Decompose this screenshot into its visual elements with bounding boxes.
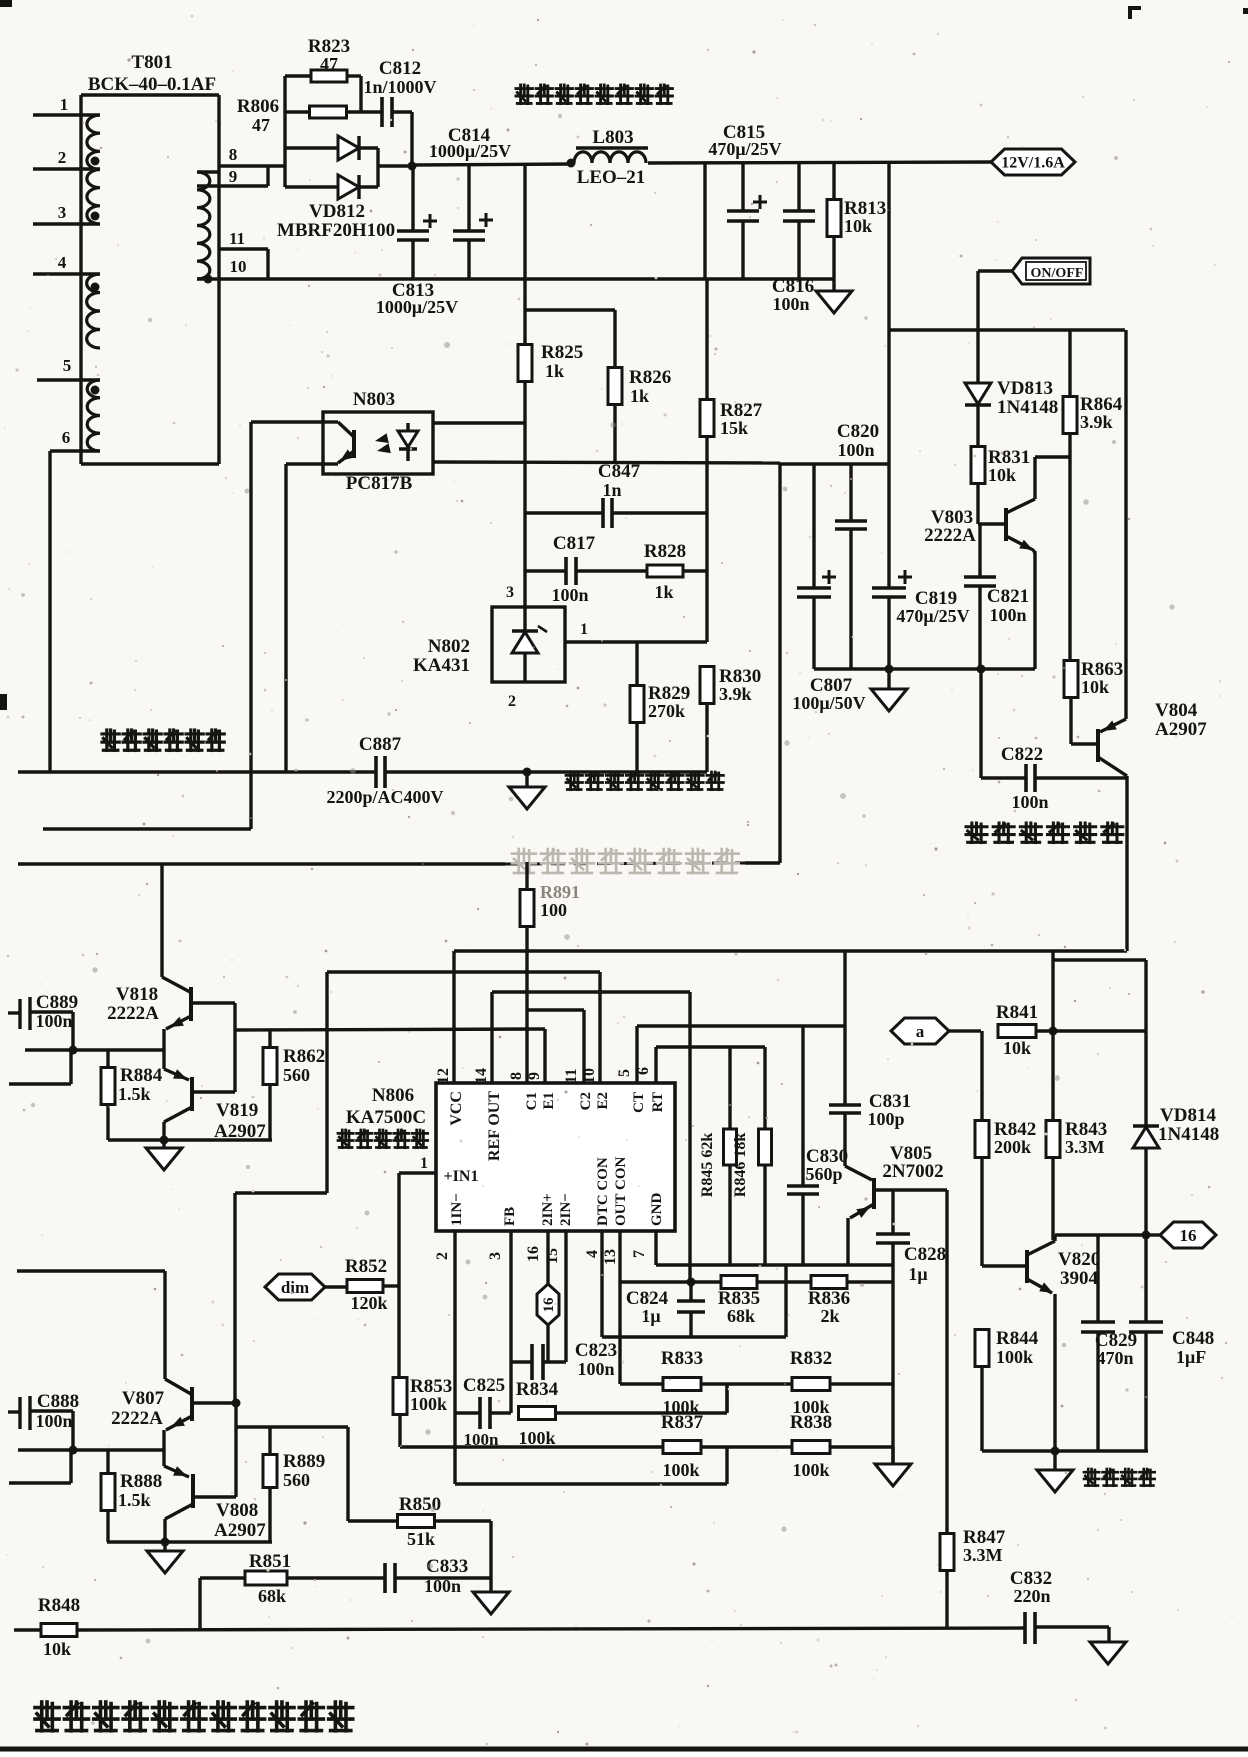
svg-text:MBRF20H100: MBRF20H100 [277, 220, 395, 241]
svg-text:C825: C825 [463, 1375, 505, 1396]
svg-text:100n: 100n [35, 1411, 72, 1431]
wire R825/R826 top link [525, 308, 615, 311]
svg-text:VCC: VCC [448, 1091, 465, 1126]
svg-text:16: 16 [525, 1246, 542, 1262]
svg-text:47: 47 [252, 115, 270, 135]
optocoupler N803 box [323, 412, 433, 474]
wire protection gnd bus [982, 1449, 1148, 1452]
wire base tie to IC [235, 1029, 545, 1030]
diode VD812 upper [285, 146, 338, 149]
svg-text:2222A: 2222A [107, 1003, 159, 1024]
svg-text:12V/1.6A: 12V/1.6A [1001, 155, 1065, 172]
N803 LED [406, 423, 409, 431]
wire base to C821 [978, 524, 981, 577]
wire E2 jog to V807 [235, 1191, 327, 1194]
wire aux stub [9, 1082, 71, 1085]
svg-text:VD813: VD813 [997, 378, 1053, 399]
resistor R813 [832, 163, 835, 200]
scan artifacts [0, 0, 12, 7]
node base input [69, 1046, 78, 1055]
svg-text:100k: 100k [996, 1347, 1033, 1367]
wire E2 pin stub [598, 972, 601, 1083]
wire LED cathode bus [433, 462, 780, 463]
wire 1IN- net [453, 1231, 456, 1484]
svg-text:C822: C822 [1001, 744, 1043, 765]
svg-text:A2907: A2907 [214, 1520, 266, 1541]
resistor R838 [792, 1441, 830, 1454]
wire V818 collector [160, 864, 163, 977]
diode VD813 [976, 330, 979, 383]
svg-text:R825: R825 [541, 342, 583, 363]
svg-text:11: 11 [563, 1068, 580, 1083]
wire base input 2 [18, 1448, 164, 1451]
resistor R863 [1068, 457, 1071, 661]
T801 winding pins5-6 [87, 380, 100, 451]
svg-text:dim: dim [281, 1278, 309, 1297]
svg-text:C820: C820 [837, 421, 879, 442]
node C824 [687, 1278, 696, 1287]
capacitor C887 [374, 756, 378, 788]
resistor R833 [663, 1378, 701, 1391]
wire main vertical from rail [887, 162, 890, 588]
svg-text:R862: R862 [283, 1046, 325, 1067]
resistor R806 [285, 110, 310, 113]
node C819 gnd [885, 665, 894, 674]
wire CT line [637, 1024, 845, 1027]
svg-text:10k: 10k [1081, 677, 1109, 697]
svg-text:1N4148: 1N4148 [997, 397, 1058, 418]
capacitor C828 [891, 1190, 894, 1234]
wire opto emitter [286, 462, 323, 465]
flag a [891, 1018, 949, 1044]
svg-text:C828: C828 [904, 1244, 946, 1265]
wire 2IN+ stub and flag 16 [546, 1231, 549, 1284]
capacitor C817 [525, 569, 566, 572]
svg-text:3.3M: 3.3M [1065, 1137, 1105, 1157]
svg-text:V807: V807 [122, 1388, 165, 1409]
resistor R888 [106, 1450, 109, 1474]
wire opto collector return [43, 827, 251, 830]
capacitor C814 [467, 164, 470, 231]
svg-text:1.5k: 1.5k [118, 1490, 151, 1510]
svg-text:100n: 100n [989, 605, 1026, 625]
svg-text:1.5k: 1.5k [118, 1084, 151, 1104]
wire R851 row [200, 1576, 245, 1579]
bottom rule [0, 1747, 1248, 1752]
resistor R846 [763, 1047, 766, 1129]
svg-text:2200p/AC400V: 2200p/AC400V [326, 787, 443, 807]
resistor R836 [811, 1276, 847, 1289]
svg-text:10k: 10k [844, 216, 872, 236]
svg-text:V820: V820 [1058, 1249, 1100, 1270]
wire KA431 ref pin1 [565, 640, 707, 643]
svg-text:R837: R837 [661, 1412, 704, 1433]
diode VD814 [1133, 1127, 1159, 1148]
wire RT line [656, 1045, 765, 1048]
svg-text:1μF: 1μF [1176, 1347, 1206, 1367]
node C821 gnd [977, 665, 986, 674]
svg-text:R891: R891 [540, 882, 580, 902]
svg-text:5: 5 [616, 1069, 633, 1077]
svg-text:VD812: VD812 [309, 201, 365, 222]
svg-text:100n: 100n [837, 440, 874, 460]
flag 12V/1.6A [991, 149, 1075, 175]
svg-text:1N4148: 1N4148 [1158, 1124, 1219, 1145]
svg-text:2: 2 [58, 148, 67, 167]
svg-text:VD814: VD814 [1160, 1105, 1216, 1126]
node rectifier output [408, 162, 417, 171]
svg-text:N803: N803 [353, 389, 395, 410]
capacitor C832 [1023, 1612, 1027, 1644]
capacitor C847 [525, 511, 603, 514]
svg-text:C889: C889 [36, 992, 78, 1013]
transformer T801 core [79, 95, 82, 464]
wire on/off branch [889, 328, 1125, 331]
svg-text:100n: 100n [424, 1576, 461, 1596]
svg-text:2IN+: 2IN+ [540, 1193, 556, 1226]
T801 winding pins1-3 [87, 115, 100, 224]
capacitor C831 [843, 951, 846, 1105]
svg-text:100k: 100k [518, 1428, 555, 1448]
svg-text:REF OUT: REF OUT [486, 1091, 503, 1161]
svg-text:100: 100 [540, 900, 567, 920]
wire R863 to V804 base [1071, 742, 1098, 745]
resistor R845 [728, 1047, 731, 1129]
label switching power section [102, 730, 224, 750]
T801 primary pin 5 wire [37, 378, 100, 381]
svg-text:100n: 100n [551, 585, 588, 605]
resistor R829 [635, 642, 638, 686]
wire E1 pin stub [543, 1029, 546, 1083]
svg-text:KA431: KA431 [413, 655, 470, 676]
wire VD812 output [378, 164, 412, 167]
node tie2 [232, 1399, 241, 1408]
ground lighting circuit [887, 669, 890, 689]
T801 primary pin 6 wire [50, 449, 100, 452]
svg-text:2IN−: 2IN− [558, 1193, 574, 1226]
svg-text:3: 3 [487, 1252, 504, 1260]
wire +IN1 [399, 1171, 436, 1174]
wire tie2 branch [236, 1425, 348, 1428]
svg-text:R884: R884 [120, 1065, 163, 1086]
wire R825 feed vertical [523, 164, 526, 310]
ground protection [1053, 1451, 1056, 1470]
svg-text:1n/1000V: 1n/1000V [363, 77, 436, 97]
wire opto line down [778, 464, 781, 863]
T801 primary pin 1 wire [33, 113, 100, 116]
phase dot pin3 [91, 212, 100, 221]
wire REF line [492, 990, 690, 993]
svg-text:R834: R834 [516, 1379, 559, 1400]
node base input 2 [69, 1446, 78, 1455]
capacitor C807 [812, 464, 815, 588]
wire 12V rail right [648, 162, 992, 163]
wire C1-C2 tie [528, 1008, 584, 1011]
wire VCC line [454, 949, 1127, 952]
svg-text:2k: 2k [820, 1306, 839, 1326]
svg-text:R844: R844 [996, 1328, 1039, 1349]
svg-text:560: 560 [283, 1470, 310, 1490]
svg-text:V808: V808 [216, 1500, 258, 1521]
svg-text:6: 6 [62, 428, 71, 447]
svg-text:6: 6 [635, 1067, 652, 1075]
wire drain to R847 [945, 1190, 948, 1534]
ground driver 2 [163, 1542, 166, 1551]
svg-text:C823: C823 [575, 1340, 617, 1361]
svg-text:100n: 100n [35, 1011, 72, 1031]
svg-text:51k: 51k [407, 1529, 435, 1549]
svg-text:ON/OFF: ON/OFF [1031, 266, 1084, 281]
capacitor C848 [1144, 1235, 1147, 1322]
svg-text:470μ/25V: 470μ/25V [896, 606, 969, 626]
resistor R826 [613, 310, 616, 368]
inductor L803 [567, 159, 576, 168]
svg-text:BCK–40–0.1AF: BCK–40–0.1AF [88, 74, 216, 95]
wire driver2 gnd bus [107, 1540, 272, 1543]
flag 16 [1146, 1233, 1160, 1236]
ground main pwm [891, 1447, 894, 1464]
svg-text:11: 11 [229, 229, 245, 248]
svg-text:1IN−: 1IN− [449, 1193, 465, 1226]
svg-text:1: 1 [60, 95, 69, 114]
wire base tie bracket 2 [193, 1401, 236, 1404]
svg-text:R846 18k: R846 18k [732, 1133, 749, 1198]
phase dot pin2 [91, 157, 100, 166]
svg-text:10k: 10k [43, 1639, 71, 1659]
svg-text:2222A: 2222A [111, 1408, 163, 1429]
capacitor C821 [964, 575, 996, 579]
svg-text:470n: 470n [1096, 1348, 1133, 1368]
wire 12V rail left [412, 164, 571, 165]
resistor R844 [975, 1330, 989, 1367]
svg-text:16: 16 [1180, 1226, 1197, 1245]
svg-text:100p: 100p [867, 1109, 904, 1129]
svg-text:470μ/25V: 470μ/25V [708, 139, 781, 159]
svg-text:R852: R852 [345, 1256, 387, 1277]
svg-text:9: 9 [526, 1072, 543, 1080]
svg-text:R838: R838 [790, 1412, 832, 1433]
svg-text:E1: E1 [541, 1092, 557, 1110]
resistor R828 [647, 565, 683, 577]
svg-text:5: 5 [63, 356, 72, 375]
svg-text:270k: 270k [648, 701, 685, 721]
capacitor C833 [383, 1563, 387, 1593]
svg-text:100k: 100k [662, 1460, 699, 1480]
svg-text:8: 8 [229, 145, 238, 164]
svg-text:100k: 100k [792, 1460, 829, 1480]
wire emitter chain [162, 1029, 165, 1069]
capacitor C822 [979, 669, 982, 778]
svg-text:C847: C847 [598, 461, 641, 482]
svg-text:10k: 10k [1003, 1038, 1031, 1058]
capacitor C889 [8, 1011, 20, 1014]
svg-text:120k: 120k [350, 1293, 387, 1313]
T801 pin 11 wire [219, 247, 268, 250]
svg-text:10: 10 [230, 257, 247, 276]
wire bottom return rail [197, 277, 834, 280]
svg-text:R832: R832 [790, 1348, 832, 1369]
svg-text:PC817B: PC817B [346, 473, 413, 494]
svg-text:1k: 1k [630, 386, 649, 406]
resistor R834 [519, 1407, 556, 1420]
svg-text:CT: CT [631, 1092, 647, 1113]
svg-text:+IN1: +IN1 [444, 1168, 479, 1185]
svg-text:10k: 10k [988, 465, 1016, 485]
resistor R827 [705, 279, 708, 400]
flag ON/OFF [978, 269, 1012, 272]
T801 primary pin 3 wire [33, 222, 100, 225]
label protection circuit [1084, 1469, 1155, 1486]
svg-text:100n: 100n [772, 294, 809, 314]
svg-text:3904: 3904 [1060, 1268, 1099, 1289]
svg-text:R826: R826 [629, 367, 671, 388]
svg-text:8: 8 [508, 1072, 525, 1080]
svg-text:C1: C1 [524, 1092, 540, 1110]
ground R850/C833 [489, 1578, 492, 1592]
T801 primary pin 4 wire [33, 272, 100, 275]
ground bottom [1090, 1642, 1126, 1664]
wire VCC stub to VD814 [1051, 951, 1054, 1031]
capacitor C820 [849, 464, 852, 521]
svg-text:C817: C817 [553, 533, 596, 554]
svg-text:RT: RT [650, 1092, 666, 1112]
svg-text:4: 4 [58, 253, 67, 272]
wire primary gnd bus [18, 770, 376, 773]
capacitor C825 [455, 1411, 480, 1414]
svg-text:C2: C2 [578, 1092, 594, 1110]
resistor R842 [980, 1031, 983, 1121]
node VD814 16 [1142, 1231, 1151, 1240]
resistor R830 [700, 667, 714, 704]
svg-text:3.3M: 3.3M [963, 1545, 1003, 1565]
wire bottom bus [14, 1628, 41, 1631]
node protection gnd [1051, 1447, 1060, 1456]
phase dot winding4 [91, 283, 100, 292]
wire R837 row [400, 1445, 664, 1448]
resistor R837 [663, 1441, 701, 1454]
resistor R847 [940, 1534, 954, 1571]
caption power+HV board [35, 1702, 353, 1731]
resistor R864 [1068, 330, 1071, 397]
svg-text:R889: R889 [283, 1451, 325, 1472]
svg-text:C821: C821 [987, 586, 1029, 607]
svg-text:R841: R841 [996, 1002, 1038, 1023]
wire ladder link [725, 1384, 728, 1413]
resistor R850 [348, 1519, 398, 1522]
svg-text:C888: C888 [37, 1391, 79, 1412]
svg-text:1μ: 1μ [641, 1306, 660, 1326]
svg-text:68k: 68k [727, 1306, 755, 1326]
svg-text:68k: 68k [258, 1586, 286, 1606]
svg-text:R848: R848 [38, 1595, 80, 1616]
svg-text:10: 10 [581, 1068, 598, 1084]
svg-text:2: 2 [508, 693, 516, 710]
svg-text:3: 3 [58, 203, 67, 222]
svg-text:7: 7 [631, 1250, 648, 1258]
ground sampling [525, 772, 528, 787]
wire OUT CON stub [618, 1231, 621, 1384]
capacitor C829 [1096, 1235, 1099, 1322]
wire pin6 down [48, 451, 51, 772]
ground return rail [816, 291, 852, 313]
capacitor C819 [872, 586, 906, 590]
svg-text:560p: 560p [805, 1164, 842, 1184]
svg-text:R828: R828 [644, 541, 686, 562]
T801 secondary winding [197, 172, 210, 279]
resistor R884 [106, 1050, 109, 1068]
label rectifier filter output [516, 85, 672, 104]
wire watermark bus [18, 862, 505, 865]
svg-text:V804: V804 [1155, 700, 1198, 721]
svg-text:2222A: 2222A [924, 525, 976, 546]
svg-text:1k: 1k [654, 582, 673, 602]
capacitor C823 [511, 1360, 532, 1363]
wire base tie bracket [192, 1001, 235, 1004]
svg-text:C887: C887 [359, 734, 402, 755]
capacitor C816 [797, 163, 800, 211]
wire aux stub 2 [9, 1481, 71, 1484]
svg-text:2: 2 [434, 1252, 451, 1260]
resistor R835 [721, 1276, 757, 1289]
svg-text:3.9k: 3.9k [719, 684, 752, 704]
resistor R862 [268, 1030, 271, 1048]
node KA431 anode gnd [523, 768, 532, 777]
flag dim [265, 1274, 325, 1300]
svg-text:OUT CON: OUT CON [613, 1157, 629, 1226]
wire gnd bus lighting [814, 667, 1035, 670]
svg-text:T801: T801 [131, 52, 172, 73]
shunt regulator N802 KA431 [492, 607, 565, 682]
T801 winding pins4-5 [87, 274, 100, 348]
ground driver [162, 1140, 165, 1148]
label oscillator control [338, 1130, 428, 1148]
svg-text:12: 12 [435, 1068, 452, 1084]
resistor R891 [525, 862, 528, 890]
svg-text:4: 4 [584, 1250, 601, 1258]
svg-text:N806: N806 [372, 1085, 414, 1106]
wire FB stub [509, 1231, 512, 1413]
svg-text:R888: R888 [120, 1471, 162, 1492]
wire 1IN- to ladder [455, 1482, 727, 1485]
resistor R831 [971, 447, 985, 484]
svg-text:1000μ/25V: 1000μ/25V [429, 141, 511, 161]
resistor R825 [523, 310, 526, 345]
svg-text:13: 13 [602, 1249, 619, 1265]
wire a to R841 [949, 1029, 965, 1032]
wire opto collector [251, 420, 323, 423]
wire C807/C820 top bus [780, 462, 889, 465]
capacitor C888 [8, 1410, 20, 1413]
diode VD812 lower [285, 185, 338, 188]
wire snubber left vertical [283, 76, 286, 187]
IC N806 KA7500C box [436, 1083, 675, 1231]
svg-text:100n: 100n [577, 1359, 614, 1379]
wire DTC stub [600, 1231, 603, 1337]
resistor R851 [245, 1571, 287, 1585]
svg-text:200k: 200k [994, 1137, 1031, 1157]
wire IC gnd bus H1 [656, 1263, 893, 1266]
lighting control label [966, 823, 1123, 843]
svg-text:LEO–21: LEO–21 [577, 167, 646, 188]
wire E2 line [327, 970, 600, 973]
svg-text:15k: 15k [720, 418, 748, 438]
svg-text:A2907: A2907 [1155, 719, 1207, 740]
svg-text:R851: R851 [249, 1551, 291, 1572]
svg-text:2N7002: 2N7002 [882, 1161, 943, 1182]
resistor R823 [285, 74, 311, 77]
wire LED anode [433, 421, 525, 424]
resistor R889 [268, 1427, 271, 1455]
